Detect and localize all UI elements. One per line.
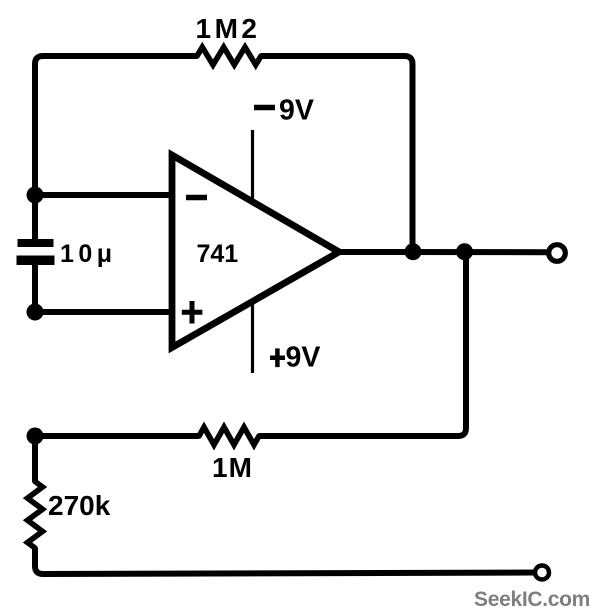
- wire non-inverting input to op-amp: [35, 309, 172, 315]
- wire feedback 2 vertical down to 1M: [259, 252, 466, 436]
- power +9V supply line: [251, 300, 254, 373]
- wire left rail node to R3: [32, 436, 38, 482]
- wire top rail right segment down to output node: [261, 56, 413, 251]
- svg-text:741: 741: [197, 240, 239, 268]
- terminal bottom open circle: [535, 566, 549, 580]
- svg-text:9V: 9V: [286, 342, 321, 374]
- node inverting input junction dot: [27, 187, 44, 204]
- node output junction dot feedback 1: [405, 243, 422, 260]
- svg-text:1M: 1M: [212, 452, 253, 483]
- wire output from op-amp to terminal: [340, 249, 549, 255]
- wire left rail bottom corner and bottom rail to terminal: [35, 548, 536, 574]
- node output junction dot feedback 2: [456, 243, 473, 260]
- op-amp U1 triangle: [172, 155, 339, 348]
- svg-text:10μ: 10μ: [60, 240, 117, 268]
- capacitor C1 bottom plate: [17, 256, 55, 266]
- resistor R1 1M2 zigzag: [197, 47, 261, 65]
- capacitor C1 top plate: [18, 239, 54, 247]
- label +9V: [270, 348, 285, 367]
- wire left rail from inverting node to capacitor: [32, 195, 38, 240]
- wire capacitor to non-inverting node: [32, 264, 38, 312]
- label -9V: [254, 105, 275, 111]
- power -9V supply line: [251, 130, 254, 203]
- wire 1M to left rail: [35, 433, 199, 439]
- op-amp inverting input label minus: [186, 195, 207, 201]
- svg-text:SeekIC.com: SeekIC.com: [474, 588, 590, 611]
- svg-text:9V: 9V: [279, 95, 314, 127]
- node non-inverting input junction dot: [27, 304, 44, 321]
- svg-text:1M2: 1M2: [196, 13, 261, 44]
- terminal output open circle: [549, 245, 566, 262]
- resistor R2 1M zigzag: [199, 427, 259, 445]
- wire inverting input to op-amp: [35, 192, 172, 198]
- resistor R3 270k zigzag: [28, 482, 43, 549]
- svg-text:270k: 270k: [48, 490, 111, 521]
- op-amp non-inverting input label plus: [182, 301, 203, 324]
- wire top rail left segment and left rail down to inverting node: [35, 56, 197, 195]
- node feedback node junction dot: [27, 428, 44, 445]
